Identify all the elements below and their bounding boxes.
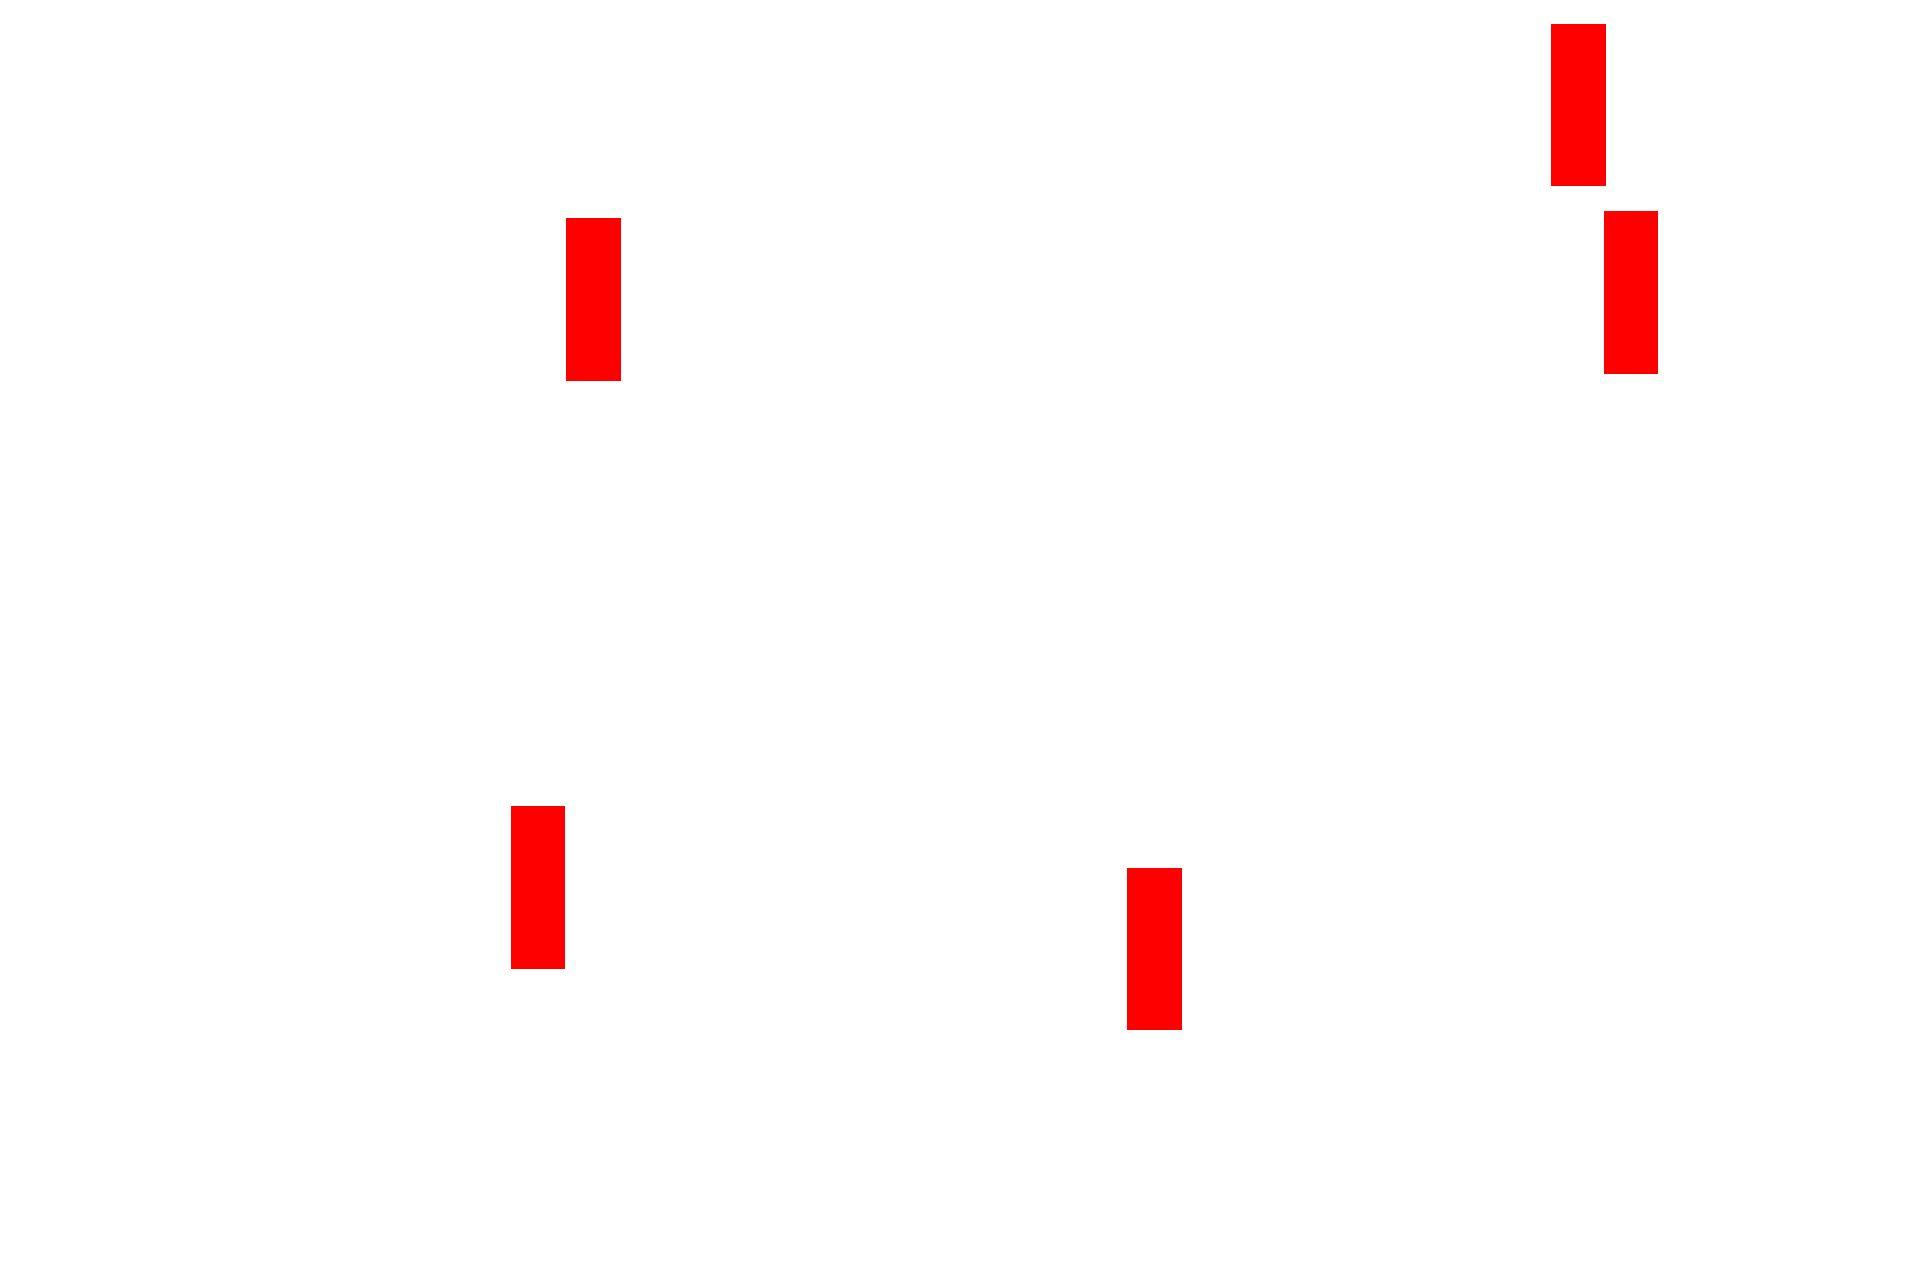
red bar B (right, below A) — [1604, 211, 1658, 374]
red bar E (lower center) — [1127, 868, 1182, 1030]
red bar D (lower left) — [511, 806, 565, 970]
red bar A (top right) — [1551, 24, 1606, 187]
red bar C (upper left-center) — [566, 218, 621, 381]
